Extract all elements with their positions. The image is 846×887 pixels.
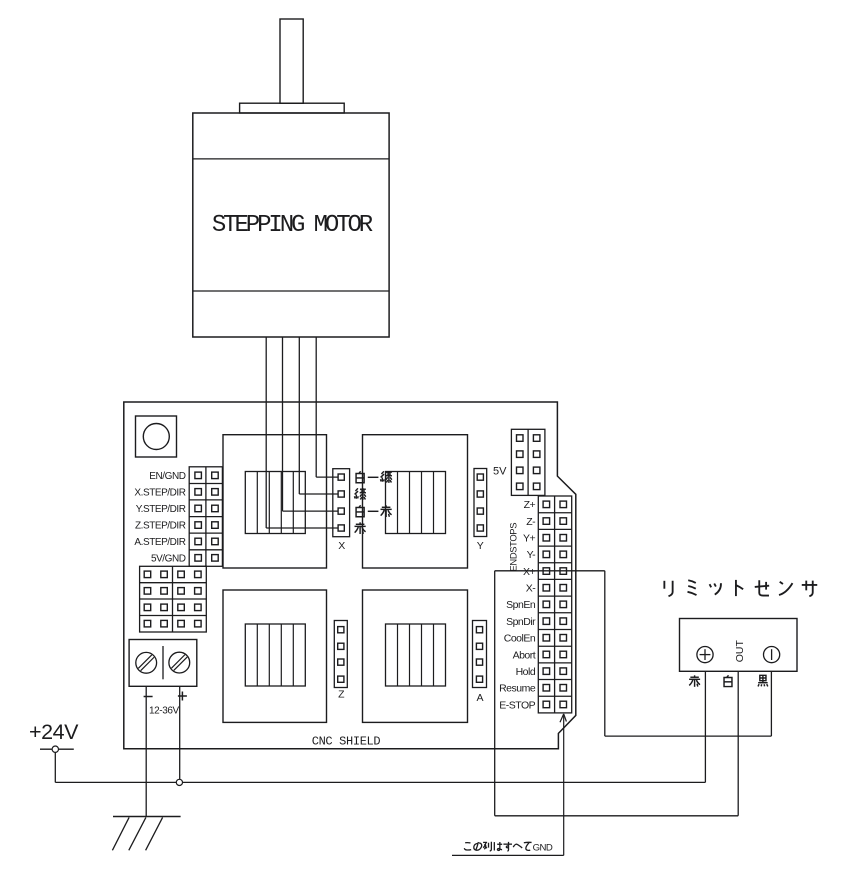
ground symbol (113, 816, 181, 818)
terminal screw (169, 652, 190, 673)
stepping motor body (193, 113, 389, 337)
wire motor lead 3 horizontal to pin (299, 493, 338, 495)
wire terminal minus to ground (145, 686, 147, 816)
sensor label aka (red) (689, 675, 700, 687)
Z aux connector 4-pin (334, 621, 347, 688)
svg-text:Resume: Resume (499, 683, 536, 695)
+24V terminal circle (52, 746, 58, 752)
5V header 2x4 (511, 429, 545, 495)
svg-text:5V/GND: 5V/GND (151, 554, 186, 565)
wire gnd bottom horizontal (495, 815, 739, 817)
svg-text:X.STEP/DIR: X.STEP/DIR (134, 488, 185, 499)
plus sign (178, 695, 187, 697)
svg-text:ENDSTOPS: ENDSTOPS (507, 523, 518, 572)
wire sensor red vertical (704, 671, 706, 782)
note underline (452, 854, 564, 856)
A aux connector 4-pin (473, 621, 487, 688)
wire sensor white vertical (737, 671, 739, 816)
svg-text:Z+: Z+ (524, 499, 536, 511)
driver socket A outer (363, 590, 468, 722)
sensor label kuro (black) (758, 675, 768, 686)
wire label shiro-midori (white-green) (356, 471, 364, 482)
motor body lower line (193, 290, 389, 292)
CNC shield board outline (124, 402, 576, 749)
driver socket Z inner chip (245, 624, 305, 686)
svg-text:A: A (476, 692, 483, 704)
svg-text:CNC SHIELD: CNC SHIELD (312, 735, 381, 749)
wire +24V down to rail (54, 752, 56, 782)
stepping motor flange (240, 103, 345, 113)
note kono retsu wa subete (this column is all) (464, 843, 471, 850)
junction +terminal to rail (176, 779, 182, 785)
motor body upper line (193, 158, 389, 160)
wire label shiro-aka (white-red) (356, 505, 364, 516)
svg-text:5V: 5V (493, 465, 507, 477)
svg-text:Y+: Y+ (523, 533, 536, 545)
sensor plus terminal (697, 647, 713, 663)
wire motor lead 4 horizontal to pin (316, 476, 338, 478)
stepping motor shaft (280, 19, 303, 103)
wire motor lead 3 (green) vertical (298, 337, 300, 494)
wire sensor black vertical (770, 671, 772, 736)
wire signal horizontal (605, 735, 772, 737)
svg-text:A.STEP/DIR: A.STEP/DIR (134, 537, 185, 548)
svg-text:STEPPING MOTOR: STEPPING MOTOR (212, 212, 373, 239)
driver socket Y outer (363, 435, 468, 568)
power terminal block 12-36V (129, 640, 197, 687)
driver socket Z outer (223, 590, 327, 722)
wire X+ left branch down (494, 571, 496, 816)
terminal screw (136, 652, 157, 673)
svg-text:12-36V: 12-36V (149, 706, 180, 717)
wire X+ right branch down (604, 571, 606, 736)
svg-text:X: X (338, 540, 345, 552)
svg-text:Z.STEP/DIR: Z.STEP/DIR (135, 521, 186, 532)
wire motor lead 2 (white-red) vertical (282, 337, 284, 511)
Y aux connector 4-pin (474, 469, 487, 537)
svg-text:+24V: +24V (29, 720, 79, 744)
minus sign (144, 696, 153, 698)
note arrow to GND column (563, 714, 565, 855)
svg-text:Abort: Abort (513, 649, 536, 661)
svg-text:GND: GND (533, 843, 553, 854)
wire X+ row across header (495, 570, 605, 572)
wire +24V rail (55, 781, 705, 783)
+24V terminal bar (40, 748, 74, 750)
reset button square (136, 416, 177, 457)
svg-text:X-: X- (526, 583, 537, 595)
svg-text:Hold: Hold (516, 666, 536, 678)
wire motor lead 4 (white-green) vertical (315, 337, 317, 477)
sensor label shiro (white) (724, 675, 732, 686)
svg-text:Y.STEP/DIR: Y.STEP/DIR (136, 504, 186, 515)
limit sensor box (680, 619, 798, 672)
stepper signal header (6 rows x 2 cols) (189, 467, 222, 567)
svg-text:EN/GND: EN/GND (149, 471, 185, 482)
4x4 jumper pin grid (140, 566, 207, 632)
svg-text:X+: X+ (523, 566, 536, 578)
driver socket Y inner chip (386, 472, 446, 534)
driver socket X outer (223, 435, 327, 568)
svg-text:Y: Y (477, 540, 484, 552)
svg-text:OUT: OUT (734, 640, 746, 663)
wire label aka (red) (355, 522, 366, 534)
svg-text:SpnEn: SpnEn (506, 599, 536, 611)
title limit sensor (katakana) (664, 581, 672, 596)
svg-text:E-STOP: E-STOP (499, 699, 535, 711)
driver socket A inner chip (386, 624, 446, 686)
wire terminal plus to +24V rail (179, 686, 181, 782)
wire motor lead 1 horizontal to pin (266, 527, 338, 529)
svg-text:CoolEn: CoolEn (504, 633, 536, 645)
svg-text:Y-: Y- (527, 549, 537, 561)
svg-text:SpnDir: SpnDir (506, 616, 536, 628)
reset button circle (143, 424, 169, 450)
ENDSTOPS header 2x13 (538, 496, 571, 713)
X motor connector 4-pin (333, 469, 350, 537)
wire motor lead 2 horizontal to pin (283, 510, 339, 512)
wire label midori (green) (355, 488, 366, 500)
wire motor lead 1 (red) vertical (265, 337, 267, 528)
svg-text:Z: Z (338, 689, 345, 701)
driver socket X inner chip (245, 472, 305, 534)
svg-text:Z-: Z- (526, 516, 536, 528)
sensor minus terminal (764, 647, 780, 663)
